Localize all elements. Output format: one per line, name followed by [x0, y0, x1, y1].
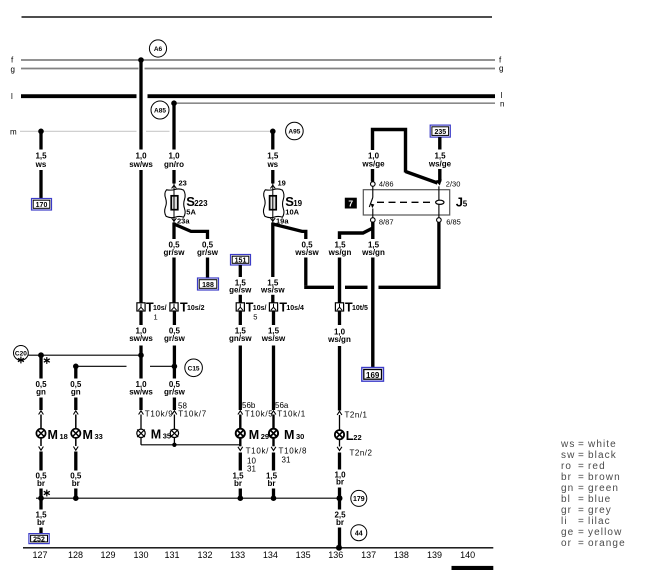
svg-text:7: 7 — [348, 198, 353, 208]
svg-text:29: 29 — [261, 432, 269, 441]
svg-text:gr/sw: gr/sw — [164, 334, 186, 343]
star mark at M18 ground junction — [44, 490, 50, 497]
bus line f — [11, 56, 502, 65]
connector T10s/5 — [236, 300, 266, 321]
relay terminal 4/86 — [371, 180, 394, 189]
svg-text:ws/sw: ws/sw — [260, 286, 285, 295]
wire 0,5 br below M18 — [35, 438, 47, 498]
svg-text:gr/sw: gr/sw — [164, 388, 186, 397]
svg-text:M: M — [48, 428, 58, 442]
svg-text:135: 135 — [296, 550, 311, 560]
svg-text:ws/ge: ws/ge — [361, 160, 385, 169]
svg-text:=: = — [578, 494, 585, 505]
svg-text:33: 33 — [95, 432, 103, 441]
relay J5 box — [363, 190, 468, 215]
svg-text:gr/sw: gr/sw — [197, 248, 219, 257]
svg-text:M: M — [249, 428, 259, 442]
reference box 169 — [362, 368, 384, 382]
relay terminal 6/85 — [437, 217, 461, 226]
svg-text:23: 23 — [179, 179, 187, 188]
connector pin 56b T10k/5 — [238, 401, 274, 429]
bus line l (thick black) — [11, 91, 503, 101]
connector T10s/4 — [269, 300, 304, 314]
star mark at M18 top junction — [44, 357, 50, 364]
svg-text:or: or — [561, 538, 572, 549]
wire branch 0,5 ws/sw (column 135) — [273, 224, 320, 286]
svg-text:sw/ws: sw/ws — [129, 160, 153, 169]
svg-text:132: 132 — [197, 550, 212, 560]
wire 1,5 ws/gn branch to T10t/5 (column 136) — [328, 228, 373, 303]
svg-text:gn/sw: gn/sw — [229, 334, 252, 343]
terminal circle 44 — [351, 525, 367, 541]
svg-text:10A: 10A — [285, 208, 299, 217]
wire 1,5 ws/sw below T10s/4 (column 134) — [261, 311, 286, 410]
bus line n — [174, 100, 504, 109]
svg-text:ro: ro — [561, 461, 572, 472]
svg-text:l: l — [11, 92, 13, 101]
connector T10t/5 — [335, 300, 368, 314]
svg-text:gn: gn — [71, 388, 81, 397]
svg-text:169: 169 — [366, 371, 380, 380]
svg-text:ws/sw: ws/sw — [294, 248, 319, 257]
svg-text:gn: gn — [36, 388, 46, 397]
svg-text:C15: C15 — [188, 365, 200, 372]
connector pin T2n/2 — [337, 439, 372, 457]
reference box 188 — [198, 278, 219, 290]
connector T10s/1 — [137, 300, 167, 321]
svg-text:gr/sw: gr/sw — [164, 248, 186, 257]
svg-text:31: 31 — [247, 465, 256, 474]
svg-text:44: 44 — [355, 530, 363, 537]
svg-text:=: = — [578, 527, 585, 538]
svg-text:4/86: 4/86 — [379, 180, 394, 189]
lamp M18 — [36, 428, 67, 442]
svg-text:ws: ws — [35, 160, 47, 169]
svg-text:138: 138 — [394, 550, 409, 560]
svg-text:br: br — [561, 472, 572, 483]
svg-text:T10k/9: T10k/9 — [145, 410, 174, 419]
svg-text:red: red — [588, 461, 606, 472]
connector pin 56a T10k/1 — [271, 401, 306, 429]
svg-text:133: 133 — [230, 550, 245, 560]
wire 1,0 gn/ro (column 131) — [164, 100, 184, 183]
relay internal contact — [369, 186, 374, 217]
svg-text:grey: grey — [588, 505, 612, 516]
star mark below C20 — [18, 357, 24, 364]
svg-text:br: br — [336, 518, 344, 527]
wire 0,5 gr/sw below T10s/2 — [164, 311, 186, 410]
svg-text:M: M — [151, 427, 161, 441]
wire 1,5 br to box 252 — [35, 498, 47, 533]
svg-text:lilac: lilac — [588, 516, 611, 527]
svg-text:130: 130 — [133, 550, 148, 560]
lamp M33 — [71, 428, 103, 442]
svg-text:31: 31 — [282, 456, 291, 465]
svg-text:sw: sw — [561, 450, 575, 461]
svg-text:188: 188 — [202, 282, 214, 289]
svg-text:br: br — [37, 479, 45, 488]
svg-text:170: 170 — [36, 202, 48, 209]
wire 1,5 br below M30 — [266, 438, 307, 498]
connector pin T10k/9 — [139, 410, 174, 430]
svg-text:ws/sw: ws/sw — [261, 334, 286, 343]
wire 1,5 ws/ge from box 235 — [428, 137, 452, 181]
bus line m — [10, 128, 273, 137]
svg-text:6/85: 6/85 — [446, 217, 461, 226]
harness connection line C20 — [14, 346, 142, 361]
svg-text:128: 128 — [68, 550, 83, 560]
svg-text:br: br — [268, 479, 276, 488]
svg-text:235: 235 — [434, 129, 446, 136]
page tab black bar — [452, 566, 494, 570]
svg-text:T10k/8: T10k/8 — [279, 447, 308, 456]
wire 1,0 ws/gn below T10t/5 — [327, 311, 351, 411]
relay internal dashed link — [377, 201, 433, 203]
wire 1,0 br below L22 — [334, 453, 346, 510]
svg-text:5: 5 — [253, 313, 257, 322]
svg-text:10s/: 10s/ — [253, 305, 267, 312]
svg-text:T10k/5: T10k/5 — [245, 410, 274, 419]
svg-text:white: white — [587, 439, 617, 450]
svg-text:T10k/1: T10k/1 — [277, 410, 306, 419]
lamp M35 (right element) — [170, 429, 178, 437]
M35 return line to M29 wire — [141, 438, 240, 447]
svg-text:green: green — [588, 483, 619, 494]
svg-text:19: 19 — [278, 179, 286, 188]
terminal circle 179 — [351, 490, 367, 506]
svg-text:A85: A85 — [154, 108, 166, 115]
ground bus line — [36, 495, 340, 501]
svg-text:1: 1 — [154, 313, 158, 322]
svg-text:140: 140 — [460, 550, 475, 560]
svg-text:=: = — [578, 516, 585, 527]
svg-text:m: m — [10, 128, 17, 137]
connector pin 58 T10k/7 — [172, 402, 207, 430]
svg-text:gn/ro: gn/ro — [164, 160, 184, 169]
fuse S223 — [165, 179, 208, 226]
svg-text:127: 127 — [32, 550, 47, 560]
svg-text:22: 22 — [353, 433, 361, 442]
wire 0,5 br below M33 — [70, 438, 82, 498]
wire 1,5 ws (column 127 top) — [35, 129, 47, 199]
svg-text:A95: A95 — [288, 129, 300, 136]
svg-text:ws: ws — [266, 160, 278, 169]
svg-text:gr: gr — [561, 505, 572, 516]
fuse S19 — [263, 179, 302, 226]
relay terminal 8/87 — [371, 217, 394, 226]
svg-text:C20: C20 — [15, 350, 27, 357]
top border rule — [22, 16, 493, 18]
wire 1,0 sw/ws below T10s/1 — [129, 311, 153, 410]
svg-text:br: br — [37, 518, 45, 527]
svg-text:=: = — [578, 439, 585, 450]
grid numbers — [32, 550, 475, 560]
svg-text:black: black — [588, 450, 617, 461]
relay internal coil — [436, 186, 444, 217]
reference box 170 — [32, 199, 52, 211]
svg-text:134: 134 — [263, 550, 278, 560]
lamp L22 — [335, 429, 362, 443]
svg-text:M: M — [284, 428, 294, 442]
svg-text:M: M — [83, 428, 93, 442]
svg-text:10s/2: 10s/2 — [187, 305, 205, 312]
wire horizontal run to relay 6/85 — [304, 222, 439, 288]
svg-text:ws/gn: ws/gn — [328, 248, 352, 257]
svg-text:ws/gn: ws/gn — [327, 335, 351, 344]
svg-text:8/87: 8/87 — [379, 217, 394, 226]
svg-text:=: = — [578, 461, 585, 472]
svg-text:136: 136 — [328, 550, 343, 560]
svg-text:A6: A6 — [154, 46, 163, 53]
svg-text:=: = — [578, 472, 585, 483]
wire 0,5 gn lamp M18 branch (column 127) — [35, 352, 47, 428]
svg-text:ge: ge — [561, 527, 574, 538]
svg-text:gn: gn — [561, 483, 574, 494]
colour legend — [560, 439, 626, 549]
svg-text:orange: orange — [588, 538, 626, 549]
svg-text:=: = — [578, 538, 585, 549]
wire 1,5 ws (column 134 top) — [266, 129, 278, 184]
wire 1,5 gn/sw below T10s/5 (column 133) — [229, 311, 252, 410]
lamp M30 — [269, 428, 304, 442]
svg-text:sw/ws: sw/ws — [129, 388, 153, 397]
svg-text:f: f — [11, 56, 14, 65]
wire 0,5 gr/sw below S223 (column 131) — [164, 223, 186, 303]
svg-text:br: br — [234, 479, 242, 488]
svg-text:T10k/7: T10k/7 — [178, 410, 207, 419]
svg-text:139: 139 — [427, 550, 442, 560]
wire 2,5 br to bottom rail — [334, 511, 346, 551]
svg-text:T10k/: T10k/ — [246, 447, 270, 456]
wire 1,5 ws/sw below S19 (column 134) — [260, 223, 285, 303]
svg-text:10t/5: 10t/5 — [352, 305, 368, 312]
svg-text:=: = — [578, 505, 585, 516]
svg-text:br: br — [336, 478, 344, 487]
reference box 151 — [231, 255, 251, 266]
svg-text:ws/gn: ws/gn — [361, 248, 385, 257]
svg-text:T2n/2: T2n/2 — [350, 449, 373, 458]
reference box 235 — [430, 125, 450, 137]
bus line g — [11, 64, 504, 74]
wire 1,5 ws/gn from 8/87 (column 137) — [361, 222, 385, 368]
wire 1,0 sw/ws (column 130) — [129, 57, 153, 303]
svg-text:n: n — [500, 100, 504, 109]
svg-text:ws/ge: ws/ge — [428, 160, 452, 169]
terminal circle A95 — [286, 122, 304, 140]
svg-text:131: 131 — [164, 550, 179, 560]
svg-text:18: 18 — [60, 432, 68, 441]
svg-text:li: li — [561, 516, 568, 527]
svg-text:129: 129 — [100, 550, 115, 560]
wire 0,5 gn lamp M33 branch (column 128) — [70, 364, 82, 429]
svg-text:ge/sw: ge/sw — [229, 286, 252, 295]
connector pin T2n/1 — [337, 411, 367, 431]
svg-text:g: g — [499, 64, 503, 73]
svg-text:bl: bl — [561, 494, 571, 505]
terminal circle A6 — [149, 40, 166, 57]
wire 1,5 br below M29 — [232, 438, 269, 498]
connector T10s/2 — [170, 300, 205, 314]
svg-text:sw/ws: sw/ws — [129, 334, 153, 343]
svg-text:252: 252 — [33, 537, 45, 544]
svg-text:23a: 23a — [177, 217, 190, 226]
reference box 252 — [29, 534, 49, 544]
svg-text:5: 5 — [463, 200, 468, 209]
svg-text:br: br — [72, 479, 80, 488]
svg-text:brown: brown — [588, 472, 621, 483]
svg-text:223: 223 — [194, 199, 208, 208]
svg-text:yellow: yellow — [588, 527, 622, 538]
svg-text:151: 151 — [235, 258, 247, 265]
svg-text:137: 137 — [361, 550, 376, 560]
svg-text:=: = — [578, 450, 585, 461]
svg-text:179: 179 — [353, 496, 365, 503]
label box 7 (black square) — [345, 198, 357, 209]
bottom rail — [23, 547, 493, 549]
terminal circle A85 — [151, 101, 169, 119]
harness connection line C15 — [76, 359, 203, 377]
svg-text:10s/: 10s/ — [153, 305, 167, 312]
svg-text:T2n/1: T2n/1 — [345, 411, 368, 420]
lamp M29 — [236, 428, 269, 442]
svg-text:2/30: 2/30 — [446, 180, 461, 189]
relay terminal 2/30 — [436, 180, 461, 189]
svg-text:=: = — [578, 483, 585, 494]
svg-text:10s/4: 10s/4 — [286, 305, 304, 312]
wire branch 0,5 gr/sw to box 188 (column 132) — [174, 224, 219, 278]
wire 1,5 ge/sw (column 133 upper) — [229, 265, 252, 303]
svg-text:blue: blue — [588, 494, 611, 505]
svg-text:g: g — [11, 65, 15, 74]
relay J5 feed wire 1,0 ws/ge — [361, 130, 437, 184]
svg-text:ws: ws — [560, 439, 575, 450]
lamp M35 (left element) — [137, 427, 171, 441]
svg-text:5A: 5A — [186, 208, 196, 217]
svg-text:30: 30 — [296, 432, 304, 441]
